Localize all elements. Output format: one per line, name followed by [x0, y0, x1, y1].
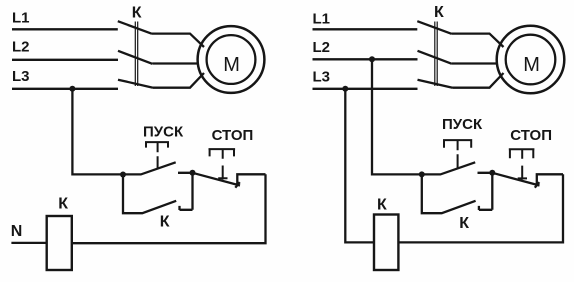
svg-text:M: M	[223, 54, 240, 76]
svg-text:СТОП: СТОП	[510, 127, 552, 144]
svg-text:L3: L3	[12, 68, 30, 85]
svg-text:L3: L3	[313, 69, 331, 86]
svg-text:К: К	[58, 195, 68, 212]
svg-text:L1: L1	[12, 10, 30, 27]
svg-text:N: N	[11, 223, 23, 240]
svg-text:К: К	[377, 197, 387, 214]
svg-text:К: К	[132, 4, 142, 21]
svg-text:К: К	[459, 215, 469, 232]
svg-text:L2: L2	[12, 39, 30, 56]
svg-text:СТОП: СТОП	[212, 127, 254, 144]
svg-text:ПУСК: ПУСК	[442, 116, 483, 133]
svg-text:L2: L2	[313, 39, 331, 56]
svg-text:К: К	[434, 4, 444, 21]
svg-text:ПУСК: ПУСК	[143, 124, 184, 141]
svg-text:M: M	[523, 54, 540, 76]
svg-text:L1: L1	[313, 11, 331, 28]
svg-text:К: К	[160, 214, 170, 231]
